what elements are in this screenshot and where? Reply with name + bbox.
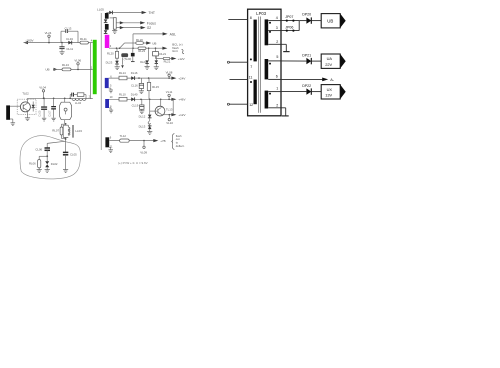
diode DP20 [302,13,311,24]
test point VL24 [45,31,52,44]
wire +12V upper [170,57,177,60]
svg-text:RL15: RL15 [152,85,159,89]
wire +24V row [109,77,177,80]
annotation flash out brace [172,134,185,150]
junction dots 24V row [138,77,170,79]
capacitor CL08 [69,93,77,100]
net A- [330,78,335,82]
test point VL08 [166,70,173,78]
svg-text:CL05: CL05 [39,110,42,117]
svg-text:VL10: VL10 [166,121,173,125]
svg-text:G2: G2 [147,26,152,30]
wire pin 7 [227,61,247,63]
node -180V [26,38,34,42]
wire JP06 join [298,21,300,31]
junction dots 46V row [140,99,174,101]
ground winding 24V [109,88,113,93]
wire pin6 to A- [281,78,328,82]
resistor RL08 [77,93,86,99]
pin 8 [110,104,112,108]
diode DL13 [139,125,152,130]
wire pin 2 ground [268,44,289,51]
resistor RL10 [119,93,127,101]
svg-text:(+) P=W + 0. U = 9.6V: (+) P=W + 0. U = 9.6V [118,161,148,165]
pin 6 [276,75,278,79]
capacitor CL20 [131,48,135,61]
wire THT [113,11,147,14]
connector drive input [6,105,10,119]
transformer LL05 core [100,13,102,150]
polarity dot secondary 1 [269,22,271,33]
diode THT 1 [104,19,108,22]
svg-text:TL13: TL13 [166,108,173,112]
svg-text:THT: THT [148,11,155,15]
wire collector rail [28,98,93,103]
wire UB row [53,68,93,71]
wire pin1 to DP22 [281,91,306,93]
resistor RL13 [62,63,71,71]
svg-text:CL07: CL07 [48,110,51,117]
test point VL10 [166,114,173,125]
ground focus divider [112,29,117,33]
node Focus [147,21,156,25]
test point VL09 [140,140,147,155]
winding LP03 secondary 3 [265,91,269,109]
svg-text:RL07: RL07 [52,129,59,133]
node BCL label [172,43,184,54]
polarity dot primary lower [250,81,252,83]
pin 12 [249,103,253,107]
svg-text:DL13: DL13 [139,125,146,129]
polarity dot primary upper [250,58,252,60]
transformer LP03 label [256,11,266,16]
svg-text:UB: UB [152,41,156,45]
wire pin 5 [268,60,281,62]
svg-text:11: 11 [249,75,253,79]
wire TL13 collector [160,99,162,106]
diode DP22 [302,84,311,95]
node G2 [147,26,152,30]
node +12V [178,113,185,117]
svg-text:ASL: ASL [170,32,177,36]
resistor RL14 [119,71,127,80]
transistor TL02 [17,92,36,115]
wire +46V row [109,98,176,101]
svg-text:LL34: LL34 [75,101,81,105]
capacitor CL16 [131,78,144,94]
resistor RL15 [147,78,159,99]
svg-text:CL34: CL34 [66,37,73,41]
resistor RL20 shunt [107,48,119,58]
ground DL23 [115,64,120,69]
diode THT 2 [104,30,108,33]
winding LL05 THT upper [105,13,109,19]
capacitor CL05 pair [39,98,48,122]
resistor RL21 [156,56,171,64]
net UX 13V output box [321,85,346,99]
diode DL02 [45,156,58,172]
svg-text:6: 6 [276,75,278,79]
capacitor CL11 [59,42,73,55]
diode DL40 [131,93,138,102]
wire UB out [143,41,156,45]
svg-text:VL11: VL11 [166,90,173,94]
transistor TL13 [155,106,173,116]
svg-text:LL03: LL03 [75,129,82,133]
node +12V upper [178,57,185,61]
svg-text:RL11: RL11 [80,37,87,41]
pin 4 [276,16,278,20]
wire pin 6 [268,78,281,80]
resistor RL20 (UB branch) [136,38,144,44]
resistor focus divider [110,18,117,30]
test point VL06 [74,58,81,70]
svg-text:-180V: -180V [26,38,34,42]
svg-text:2: 2 [276,103,278,107]
net UB output box [321,14,346,28]
transformer LP03 box [248,9,281,116]
svg-text:5: 5 [276,55,278,59]
transformer LP03 core [259,17,261,113]
ground winding 46V [109,108,113,113]
net UA 22V output box [321,54,346,68]
pin 8 [250,16,252,20]
svg-text:CL19: CL19 [132,104,139,108]
pin 5 [276,55,278,59]
node blob junction [46,155,48,157]
svg-text:DP20: DP20 [302,13,311,17]
svg-text:22V: 22V [325,62,332,67]
wire Focus [116,21,145,24]
junction dots BCL row [116,47,157,49]
svg-text:3: 3 [276,26,278,30]
pin 7 [250,65,252,69]
diode DL12 [139,99,152,118]
svg-text:UB: UB [45,68,49,72]
inductor LL04 [60,98,72,124]
wire into blob [47,141,64,147]
polarity dot secondary 2 [269,63,271,65]
node +24V [178,76,185,80]
diode DL16 [131,71,138,80]
resistor RL11 [80,37,88,44]
wire ASL branch [133,32,168,48]
node UB in [45,68,49,72]
node e7B [160,139,165,143]
svg-text:DL02: DL02 [51,162,58,166]
svg-text:VL09: VL09 [140,151,147,155]
wire BCL main [109,47,167,50]
svg-text:JP07: JP07 [285,15,293,19]
resistor RL06 [29,156,47,172]
diode DL20 right [155,56,158,64]
svg-text:flash: flash [176,134,182,138]
pin 2 [276,40,278,44]
svg-text:RL23: RL23 [138,49,145,53]
wire base [10,105,20,107]
ground connector [10,119,15,126]
ground DL13 [147,129,152,134]
wire DP20 to UB [311,20,321,22]
wire TL13 base [150,110,158,112]
wire primary left rail [89,43,91,99]
transistor TL20 [121,53,131,61]
transformer LL03 [63,124,82,140]
jumper JP06 [281,25,299,31]
svg-text:out: out [176,137,180,141]
ground winding flash [108,148,113,153]
wire DL12-DL13 [148,118,151,129]
svg-text:DL12: DL12 [139,114,146,118]
capacitor CL07 [48,98,56,122]
test point VL11 [166,90,173,99]
wire pin 12 [227,103,247,105]
wire pin5 to DP21 [281,60,306,62]
wire pin 2b ground [268,108,289,116]
svg-text:RL14: RL14 [119,71,126,75]
svg-text:RL06: RL06 [29,162,36,166]
wire DP21 to UA [311,60,321,62]
svg-text:7: 7 [250,65,252,69]
svg-text:limit: limit [172,49,177,53]
winding LP03 secondary 1 [265,19,269,45]
svg-text:13V: 13V [325,93,332,98]
winding LL05 ASL (magenta highlight) [105,35,110,48]
svg-text:DL20: DL20 [140,60,147,64]
wire G2 [116,26,145,29]
test point VL04 [39,86,46,100]
wire +12V row [162,113,177,116]
svg-text:DP22: DP22 [302,84,311,88]
ground DL20 left [145,64,150,70]
svg-text:4: 4 [276,16,278,20]
svg-text:CL11: CL11 [66,47,73,51]
svg-text:TL12: TL12 [120,134,127,138]
ground DL20 right [154,64,159,70]
wire UB branch [120,43,136,48]
svg-text:VL06: VL06 [74,58,81,62]
diode TL02 damper [32,102,35,112]
svg-text:Focus: Focus [147,21,156,25]
wire pin 1 [268,91,281,93]
svg-text:DL40: DL40 [131,93,138,97]
jumper JP07 [281,15,299,22]
svg-text:12: 12 [249,103,253,107]
svg-text:CL16: CL16 [131,83,138,87]
pin 10 [110,95,113,99]
svg-text:+12V: +12V [178,57,185,61]
svg-text:UA: UA [327,56,333,61]
svg-text:RL13: RL13 [62,63,69,67]
winding LL05 flash [105,137,109,147]
pin 2 [89,94,91,98]
svg-text:RL21: RL21 [164,59,171,63]
caption [118,161,148,165]
winding LP03 secondary 2 [265,59,269,79]
wire 46V to 12V link [172,99,174,115]
resistor RL07 [52,124,65,138]
svg-text:2: 2 [276,40,278,44]
pin 2b [276,103,278,107]
svg-text:+24V: +24V [178,76,185,80]
transformer LL05 label [97,8,104,12]
diode DL23 [106,58,119,64]
wire to DP20 [299,20,306,22]
svg-text:+12V: +12V [178,113,185,117]
resistor RL12 [120,134,130,142]
node THT [148,11,155,15]
svg-text:deflect.: deflect. [176,144,185,148]
node ASL [170,32,177,36]
capacitor CL05b [63,139,77,172]
winding LL05 THT lower [105,24,109,30]
polarity dot secondary 3 [269,93,271,95]
svg-text:VL04: VL04 [39,86,46,90]
pin 1 [276,87,278,91]
pin 6 [110,74,112,78]
pin 3 [276,26,278,30]
blob outline [20,136,80,179]
wire TL20 down arrow [121,58,124,69]
capacitor CL13 [61,27,78,43]
svg-text:RL20: RL20 [107,52,114,56]
inductor LL34 [72,99,86,106]
svg-text:8: 8 [250,16,252,20]
wire e7B row [109,139,158,142]
wire emitter [25,111,30,121]
node LL03 top [65,123,67,125]
svg-text:+7B: +7B [160,139,165,143]
svg-text:VL24: VL24 [45,31,52,35]
resistor RL22 [138,47,146,53]
svg-text:LP03: LP03 [256,11,266,16]
wire pin 3 [268,30,281,32]
winding LP03 primary upper [254,20,257,62]
capacitor CL06 [35,148,50,157]
wire -180V row [24,41,93,44]
svg-text:UX: UX [327,87,333,92]
winding LL05 46V (blue highlight) [105,99,109,108]
wire pin 4 [268,20,281,22]
pin 11 [249,75,253,79]
pin 5 [110,84,112,88]
pin 3 [110,44,112,48]
capacitor CL21 [153,48,167,56]
svg-text:RL10: RL10 [119,93,126,97]
pin 9 [110,136,112,140]
svg-text:DL16: DL16 [131,71,138,75]
svg-text:(TL20): (TL20) [124,57,132,61]
svg-text:DL23: DL23 [106,60,113,64]
svg-text:DL21: DL21 [159,52,166,56]
winding LL05 24V (blue highlight) [105,78,109,88]
pin 11 [110,144,113,148]
diode DP21 [302,53,311,64]
pin 4 [91,39,93,43]
svg-text:UB: UB [327,18,333,23]
svg-text:+46V: +46V [178,98,185,102]
wire pin 11 [230,79,248,81]
node +46V [178,98,185,102]
capacitor CL19 [132,99,145,113]
svg-text:1: 1 [276,87,278,91]
diode DL20 left [140,48,149,64]
svg-text:CL05: CL05 [70,152,77,156]
winding LL05 primary (green highlight) [93,40,97,94]
winding LP03 primary lower [254,80,257,105]
wire pin 8 [228,19,247,21]
pin 1 [91,65,93,69]
svg-text:TL02: TL02 [22,92,29,96]
diode CL34 [66,37,73,45]
diode THT output [107,11,113,15]
wire DP22 to UX [311,91,321,93]
svg-text:DP21: DP21 [302,53,311,57]
svg-text:CL06: CL06 [35,148,42,152]
svg-text:JP06: JP06 [285,25,293,29]
svg-text:LL05: LL05 [97,8,104,12]
